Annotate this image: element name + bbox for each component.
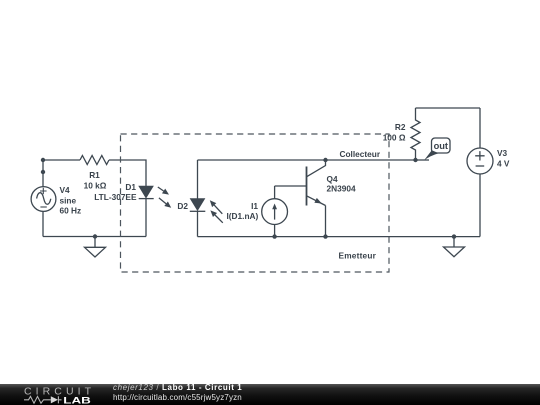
ground (left) xyxy=(85,237,106,258)
wire Q4 emitter down xyxy=(325,206,327,237)
wire D2 top lead xyxy=(197,160,199,199)
voltage source V3 xyxy=(467,148,493,174)
wire inner bottom rail (Emetteur) xyxy=(198,236,455,238)
svg-text:Q4: Q4 xyxy=(327,174,338,184)
resistor R1 xyxy=(80,156,109,165)
svg-text:10 kΩ: 10 kΩ xyxy=(84,181,107,191)
svg-text:Emetteur: Emetteur xyxy=(339,251,377,261)
wire R1 to D1 top corner xyxy=(109,160,146,186)
resistor R2 xyxy=(411,108,420,160)
wire V3 top lead xyxy=(479,108,481,148)
svg-text:I(D1.nA): I(D1.nA) xyxy=(226,211,258,221)
junction dots xyxy=(41,158,456,239)
svg-text:I1: I1 xyxy=(251,201,258,211)
svg-text:4 V: 4 V xyxy=(497,158,510,168)
net flag out xyxy=(424,138,450,161)
wire stub to out flag xyxy=(416,159,430,161)
svg-text:LAB: LAB xyxy=(63,396,91,405)
wire I1 bottom lead xyxy=(274,225,276,237)
wire inner top rail (Collecteur) xyxy=(198,159,416,161)
svg-text:60 Hz: 60 Hz xyxy=(60,206,82,216)
svg-text:D1: D1 xyxy=(125,182,136,192)
svg-text:D2: D2 xyxy=(177,201,188,211)
svg-text:100 Ω: 100 Ω xyxy=(383,132,406,142)
wire D2 cathode down to bottom rail xyxy=(197,211,199,236)
transistor Q4 xyxy=(307,160,326,206)
svg-text:V4: V4 xyxy=(60,185,71,195)
photodiode D2 xyxy=(190,199,223,223)
svg-text:R2: R2 xyxy=(395,122,406,132)
svg-text:LTL-307EE: LTL-307EE xyxy=(94,192,137,202)
svg-text:V3: V3 xyxy=(497,148,508,158)
CircuitLab logo xyxy=(23,384,98,405)
svg-text:sine: sine xyxy=(60,195,77,205)
svg-text:R1: R1 xyxy=(89,170,100,180)
svg-text:out: out xyxy=(434,141,448,151)
wire top-right rail xyxy=(416,107,481,109)
current source I1 xyxy=(262,199,288,225)
optocoupler boundary (dashed box) xyxy=(121,134,390,272)
voltage source V4 xyxy=(31,187,56,212)
wire top-left from node to R1 xyxy=(43,159,80,161)
svg-text:Collecteur: Collecteur xyxy=(340,149,381,159)
wire left vertical below V4 xyxy=(42,211,44,236)
ground (right) xyxy=(444,237,465,257)
credits text xyxy=(113,383,242,403)
wire V3 bottom lead xyxy=(479,174,481,237)
footer bar xyxy=(0,384,540,405)
wire bottom-right xyxy=(454,236,480,238)
svg-text:2N3904: 2N3904 xyxy=(327,184,356,194)
wire bottom of left loop xyxy=(43,236,146,238)
diode D1 (LED) xyxy=(139,186,172,207)
wire left vertical above V4 xyxy=(42,160,44,187)
wire I1 top lead xyxy=(274,186,276,199)
wire base wire I1 to Q4 xyxy=(275,185,307,187)
wire D1 cathode down to bottom xyxy=(145,199,147,237)
